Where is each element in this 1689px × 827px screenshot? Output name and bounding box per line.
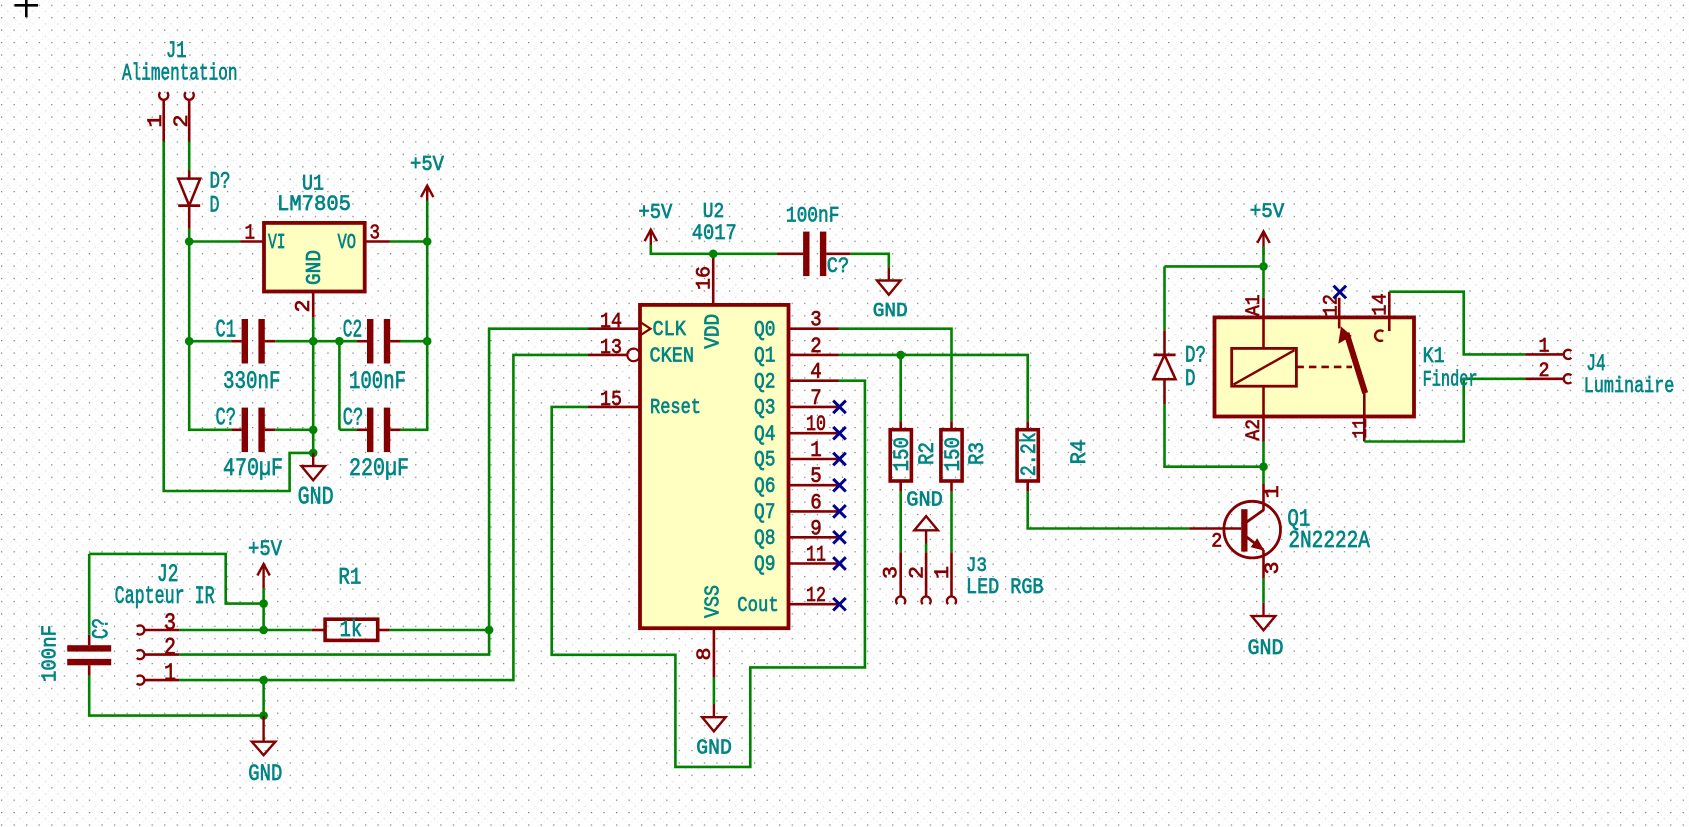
wire diode top (1163, 266, 1166, 330)
pin 1 of J3 (950, 552, 953, 596)
svg-text:470µF: 470µF (223, 454, 283, 483)
svg-text:6: 6 (810, 490, 822, 515)
svg-text:+5V: +5V (1250, 201, 1285, 224)
svg-text:5: 5 (810, 464, 822, 489)
svg-text:2N2222A: 2N2222A (1288, 528, 1370, 555)
svg-text:3: 3 (810, 308, 822, 333)
svg-text:VSS: VSS (702, 585, 726, 618)
svg-text:R1: R1 (338, 566, 361, 592)
relay switch lever (1347, 333, 1366, 393)
wire J2.2 to CLK net (179, 630, 489, 655)
pin 15 Reset of U2 (588, 406, 640, 409)
relay coil (1232, 348, 1297, 386)
wire A2 node to Q1 collector (1262, 467, 1265, 484)
wire left rail to C? 470uF (189, 341, 231, 430)
resistor R3 150 (940, 421, 990, 491)
relay actuation dashed link (1296, 366, 1352, 369)
junction CLK net (485, 626, 494, 635)
wire R3 to J3.1 (950, 492, 953, 553)
svg-text:3: 3 (370, 222, 381, 246)
svg-text:D?: D? (1185, 344, 1206, 370)
pin 3 VO of U1 (365, 240, 390, 243)
no-connect X on Q9 (833, 557, 846, 570)
svg-text:1: 1 (245, 222, 256, 246)
svg-text:2: 2 (292, 300, 316, 313)
no-connect X on Q8 (833, 531, 846, 544)
svg-text:12: 12 (806, 584, 826, 608)
svg-text:Q0: Q0 (754, 317, 776, 342)
wire C? 220uF right to +5V rail (401, 341, 428, 430)
svg-text:8: 8 (694, 648, 717, 661)
connector J4 Luminaire (1525, 336, 1674, 400)
svg-text:1: 1 (932, 566, 955, 579)
capacitor C1 330nF (242, 319, 265, 364)
svg-text:4: 4 (810, 360, 822, 385)
junction +5V rail at C2 (423, 337, 432, 346)
capacitor C? 100nF (sensor filter, horizontal plates) (38, 618, 115, 682)
resistor R1 1k (312, 566, 390, 645)
svg-text:GND: GND (248, 762, 282, 788)
junction sensor GND node (259, 711, 268, 720)
svg-text:1: 1 (1262, 485, 1285, 498)
svg-text:Q6: Q6 (754, 474, 776, 499)
svg-text:Q1: Q1 (754, 344, 776, 369)
svg-text:14: 14 (600, 310, 622, 334)
svg-text:Cout: Cout (737, 594, 779, 618)
power +5V (U1 output) (421, 186, 433, 210)
junction A2 node (1259, 462, 1268, 471)
pin 6 Q7 of U2 (789, 510, 839, 513)
pin 14 of K1 (1388, 292, 1391, 318)
pin 3 emitter of Q1 (1246, 537, 1264, 551)
svg-text:Luminaire: Luminaire (1584, 374, 1675, 399)
capacitor C? 100nF (U2 decoupling) (803, 232, 826, 277)
pin 3 of J3 (899, 552, 902, 596)
wire C2 right to +5V rail (401, 340, 428, 343)
svg-text:330nF: 330nF (223, 367, 281, 396)
svg-text:3: 3 (880, 566, 903, 579)
wire R1 to CLK net (390, 629, 489, 632)
svg-text:VDD: VDD (702, 314, 726, 349)
svg-text:+5V: +5V (248, 536, 282, 562)
pin 2 of J1 (188, 100, 191, 142)
svg-text:R4: R4 (1066, 440, 1092, 465)
pin 13 CKEN of U2 (588, 354, 627, 357)
svg-text:D: D (1185, 367, 1196, 393)
svg-text:15: 15 (600, 388, 622, 412)
ground (sensor) (252, 716, 276, 755)
pin 1 of J4 (1525, 353, 1563, 356)
transistor Q1 2N2222A (1189, 484, 1370, 578)
svg-text:CKEN: CKEN (650, 345, 695, 369)
power +5V (relay) (1257, 231, 1269, 255)
junction relay +5V (1259, 262, 1268, 271)
wire C? 470uF right (275, 428, 313, 431)
wire C1 left (189, 340, 231, 343)
pin 2 GND of U1 (312, 292, 315, 318)
wire R2 to J3.3 (899, 492, 902, 553)
power +5V (sensor) (257, 564, 269, 588)
pin 11 Q9 of U2 (789, 562, 839, 565)
ground (LED common, flipped) (914, 516, 938, 543)
wire to U1 VI (189, 240, 240, 243)
pin A2 of K1 (1262, 386, 1265, 416)
svg-text:3: 3 (164, 611, 176, 638)
wire +5V symbol stem (426, 201, 429, 242)
svg-text:150: 150 (940, 437, 966, 472)
svg-text:9: 9 (810, 516, 822, 541)
svg-text:150: 150 (889, 437, 915, 472)
pin 8 VSS of U2 (713, 628, 716, 677)
pin 2 Q1 of U2 (789, 354, 839, 357)
svg-text:R3: R3 (964, 442, 990, 465)
svg-text:Q3: Q3 (754, 396, 776, 421)
pin 14 CLK of U2 (588, 327, 640, 330)
wire to C? 220uF left (339, 428, 356, 431)
connector J3 LED RGB (880, 552, 1043, 604)
svg-text:GND: GND (298, 483, 334, 512)
svg-text:Q2: Q2 (754, 369, 776, 394)
svg-text:C?: C? (343, 404, 364, 433)
wire J2.1 down to GND node (262, 680, 265, 716)
relay K1 Finder body (1215, 317, 1415, 416)
no-connect X on Q3 (833, 401, 846, 414)
capacitor C2 100nF (367, 319, 390, 364)
pin 12 of K1 (1338, 298, 1341, 318)
svg-text:2.2k: 2.2k (1016, 432, 1042, 476)
svg-text:11: 11 (1350, 419, 1373, 439)
svg-text:Q9: Q9 (754, 552, 776, 577)
svg-text:Q5: Q5 (754, 448, 776, 473)
junction VDD (709, 250, 718, 259)
pin 3 Q0 of U2 (789, 327, 839, 330)
svg-text:C?: C? (90, 618, 116, 639)
svg-text:GND: GND (906, 489, 943, 513)
pin 1 of J1 (162, 100, 165, 142)
svg-text:GND: GND (303, 250, 327, 285)
wire to C2 left (313, 340, 356, 343)
svg-text:A2: A2 (1243, 419, 1266, 441)
svg-text:12: 12 (1321, 294, 1344, 317)
svg-text:100nF: 100nF (349, 367, 406, 396)
junction at C1 left (185, 337, 194, 346)
svg-text:Q7: Q7 (754, 500, 776, 525)
pin 1 Q5 of U2 (789, 458, 839, 461)
pin 10 Q4 of U2 (789, 432, 839, 435)
wire D? cathode to VI node (188, 229, 191, 242)
svg-text:C?: C? (827, 254, 850, 279)
ground (Q1 emitter) (1252, 603, 1276, 630)
relay NO contact (1375, 330, 1383, 340)
svg-text:LED RGB: LED RGB (966, 575, 1044, 600)
wire +5V to C? top (88, 554, 91, 635)
no-connect X on Q5 (833, 453, 846, 466)
junction J2.1 gnd (259, 676, 268, 685)
svg-text:11: 11 (806, 543, 826, 568)
svg-text:2: 2 (1211, 531, 1222, 554)
wire +5V to relay A1 (1262, 246, 1265, 297)
svg-text:A1: A1 (1243, 294, 1266, 316)
ground (U2 decoupling) (877, 267, 901, 294)
junction GND node (309, 449, 318, 458)
pin 12 Cout of U2 (789, 603, 839, 606)
capacitor C? 220uF (367, 408, 390, 453)
svg-text:2: 2 (907, 566, 930, 579)
svg-text:16: 16 (694, 266, 717, 290)
svg-text:VI: VI (268, 231, 286, 255)
svg-text:C?: C? (216, 404, 237, 433)
svg-text:14: 14 (1370, 293, 1393, 316)
wire Q0 to R3 (839, 329, 952, 422)
wire emitter to ground (1262, 578, 1265, 603)
no-connect X on Q7 (833, 505, 846, 518)
svg-text:+5V: +5V (638, 201, 672, 225)
wire Q1 to R4 (901, 355, 1028, 421)
junction C2 left (335, 337, 344, 346)
junction GND rail mid (309, 426, 318, 435)
wire R4 to Q1 base (1028, 492, 1190, 529)
wire J2.1 to U2 CKEN (264, 355, 588, 680)
svg-text:10: 10 (806, 412, 826, 437)
wire +5V rail down (426, 242, 429, 342)
svg-text:7: 7 (810, 386, 822, 411)
svg-text:3: 3 (1262, 562, 1285, 575)
svg-text:Reset: Reset (650, 396, 701, 420)
wire +5V stem to J2.3 (262, 588, 265, 630)
pin 2 of J3 (925, 552, 928, 596)
capacitor C? 470uF (242, 408, 265, 453)
junction +5V rail (423, 237, 432, 246)
svg-text:13: 13 (600, 336, 622, 360)
pin A1 of K1 (1262, 298, 1265, 318)
svg-text:2: 2 (810, 334, 822, 359)
wire J2.3 to R1 (264, 629, 312, 632)
wire J1.2 to D? anode (188, 142, 191, 171)
wire Q1 down to R2 (899, 355, 902, 421)
pin 16 VDD of U2 (712, 255, 715, 305)
wire K1.11 to J4.2 (1364, 379, 1525, 442)
wire J2.1 segment (179, 679, 264, 682)
svg-text:Alimentation: Alimentation (122, 62, 238, 88)
svg-text:Q4: Q4 (754, 422, 776, 447)
wire C? to GND (850, 254, 888, 267)
wire A2 to node (1262, 442, 1265, 467)
svg-text:D: D (210, 194, 220, 220)
svg-text:1: 1 (164, 661, 176, 688)
wire J2.3 segment (179, 629, 264, 632)
no-connect X on Cout (833, 598, 846, 611)
svg-text:Finder: Finder (1423, 368, 1478, 393)
svg-text:2: 2 (1539, 360, 1550, 383)
wire +5V to VDD and C? (651, 245, 777, 254)
ground (input filter) (301, 453, 325, 480)
wire down to C? 220uF (338, 341, 341, 430)
svg-text:100nF: 100nF (38, 625, 62, 682)
svg-text:GND: GND (696, 737, 732, 761)
resistor R2 150 (889, 421, 940, 491)
wire GND rail vertical (312, 341, 315, 453)
connector J2 Capteur IR (115, 560, 215, 688)
svg-text:2: 2 (171, 115, 194, 128)
wire C1 right to GND rail (275, 340, 313, 343)
junction J2.3 +5V (259, 626, 268, 635)
ground (U2 VSS) (702, 704, 726, 731)
wire U1 VO to +5V rail (390, 240, 427, 243)
svg-text:Q8: Q8 (754, 526, 776, 551)
wire VI node down to C1 (188, 242, 191, 342)
connector J1 Alimentation (122, 39, 238, 142)
pin 2 base of Q1 (1189, 527, 1241, 530)
wire J1.1 to GND net (164, 142, 314, 492)
wire +5V to flyback diode (1165, 265, 1264, 268)
svg-text:D?: D? (210, 170, 231, 196)
sheet origin crosshair (15, 0, 39, 17)
pin 2 of J2 (137, 650, 145, 659)
pin 2 of J4 (1525, 377, 1563, 380)
no-connect X on K1 pin 12 (1334, 286, 1347, 299)
svg-text:+5V: +5V (410, 153, 444, 177)
resistor R4 2.2k (1016, 421, 1092, 491)
pin 9 Q8 of U2 (789, 536, 839, 539)
junction Q1 net (896, 351, 905, 360)
pin 3 of J2 (137, 625, 145, 634)
svg-text:R2: R2 (914, 442, 940, 465)
diode D? (series input) (178, 170, 230, 229)
pin 1 VI of U1 (240, 240, 264, 243)
svg-text:1: 1 (810, 438, 822, 463)
wire Q2 to Reset (552, 381, 865, 767)
no-connect X on Q4 (833, 427, 846, 440)
svg-text:GND: GND (1248, 636, 1284, 661)
svg-text:CLK: CLK (653, 318, 687, 342)
junction GND rail top (309, 337, 318, 346)
junction VI node (185, 237, 194, 246)
svg-text:LM7805: LM7805 (277, 191, 351, 217)
svg-text:Capteur IR: Capteur IR (115, 582, 215, 611)
svg-text:GND: GND (873, 300, 908, 322)
wire CLK net up to U2 CLK (489, 329, 588, 630)
no-connect X on Q6 (833, 479, 846, 492)
svg-text:1: 1 (145, 115, 168, 128)
pin 1 collector of Q1 (1262, 484, 1265, 511)
wire diode bottom to A2 node (1165, 404, 1264, 467)
power +5V (U2) (645, 230, 657, 254)
svg-text:K1: K1 (1423, 344, 1445, 369)
pin 7 Q3 of U2 (789, 406, 839, 409)
pin 5 Q6 of U2 (789, 484, 839, 487)
svg-text:VO: VO (338, 231, 357, 255)
wire GND to J3.2 (925, 544, 928, 553)
pin 1 of J2 (137, 676, 145, 685)
wire C? bottom to GND node (89, 676, 263, 716)
svg-text:1: 1 (1539, 336, 1550, 359)
regulator U1 LM7805 (240, 172, 390, 318)
svg-text:100nF: 100nF (786, 204, 840, 229)
svg-text:220µF: 220µF (349, 454, 409, 483)
IC U2 4017 body (640, 305, 789, 628)
wire VSS to ground (713, 678, 716, 704)
pin 11 of K1 (1363, 393, 1366, 416)
svg-text:2: 2 (164, 635, 176, 662)
wire Q1 segment (839, 354, 901, 357)
wire C? top to +5V (89, 554, 263, 604)
svg-text:4017: 4017 (692, 220, 737, 246)
wire U1 GND pin to cap mid rail (312, 317, 315, 341)
pin 4 Q2 of U2 (789, 379, 839, 382)
svg-text:1k: 1k (340, 618, 363, 644)
junction sensor +5V (259, 599, 268, 608)
wire K1.14 to J4.1 (1389, 292, 1525, 355)
diode D? (flyback) (1153, 330, 1206, 404)
base bar of Q1 (1241, 509, 1247, 551)
